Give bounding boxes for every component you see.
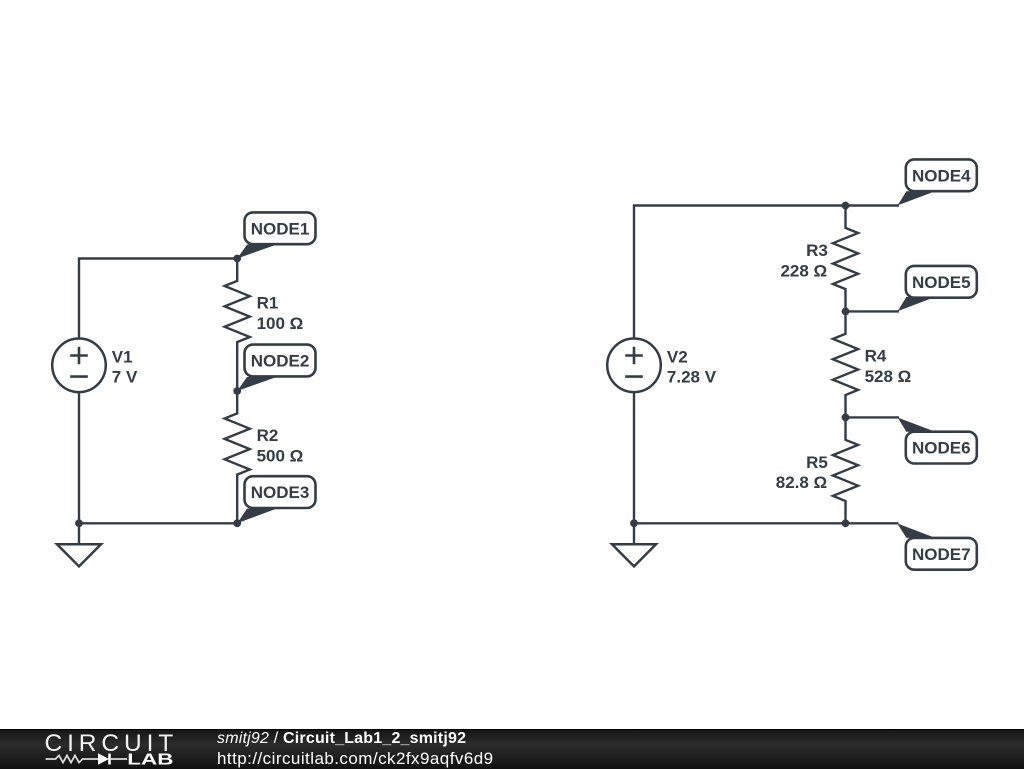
svg-text:7 V: 7 V (112, 368, 138, 387)
ground (left circuit) (78, 523, 80, 544)
svg-text:528 Ω: 528 Ω (865, 367, 912, 386)
node NODE2 flag (237, 377, 276, 391)
svg-text:LAB: LAB (127, 752, 173, 768)
svg-text:228 Ω: 228 Ω (780, 262, 827, 281)
svg-text:82.8 Ω: 82.8 Ω (776, 473, 827, 492)
node NODE5 junction dot (842, 308, 850, 316)
wire: R1 to R2 (236, 365, 238, 392)
node NODE5 flag (898, 297, 936, 311)
footer line 2 (217, 749, 494, 769)
wire: right circuit top rail (634, 206, 846, 339)
footer line 1 (217, 730, 466, 748)
resistor R1 (225, 259, 250, 365)
node NODE7 junction dot (842, 519, 850, 527)
logo diode (98, 753, 109, 764)
node NODE6 junction dot (842, 414, 850, 422)
footer bar (0, 729, 1024, 769)
node NODE4 flag (898, 191, 936, 205)
wire: left circuit top rail (79, 259, 237, 339)
resistor R5 (833, 417, 858, 523)
svg-text:NODE1: NODE1 (251, 219, 310, 238)
wire: right circuit bottom rail (634, 392, 846, 523)
svg-text:NODE4: NODE4 (912, 166, 971, 185)
node NODE1 junction dot (233, 255, 241, 263)
resistor R2 (225, 391, 250, 497)
node NODE7 flag (897, 523, 935, 538)
wire: NODE7 stub (846, 522, 899, 524)
svg-text:7.28 V: 7.28 V (667, 368, 717, 387)
node NODE1 flag (237, 245, 276, 259)
node NODE2 junction dot (233, 387, 241, 395)
svg-text:NODE6: NODE6 (912, 439, 971, 458)
svg-text:V1: V1 (112, 347, 133, 366)
node B junction dot (V2- / gnd) (630, 519, 638, 527)
logo resistor-diode squiggle (46, 755, 98, 762)
svg-text:R2: R2 (257, 426, 279, 445)
wire: NODE5 stub (846, 310, 900, 312)
svg-text:NODE2: NODE2 (251, 352, 310, 371)
svg-text:NODE5: NODE5 (912, 273, 971, 292)
wire: R2 to bottom rail (236, 497, 238, 523)
svg-text:R5: R5 (806, 453, 828, 472)
voltage source V2 (607, 339, 661, 393)
resistor R3 (833, 206, 858, 312)
voltage source V1 (52, 339, 106, 393)
wire: NODE4 stub (846, 204, 900, 206)
node NODE6 flag (898, 418, 936, 432)
svg-text:R4: R4 (865, 347, 887, 366)
svg-text:R3: R3 (806, 241, 828, 260)
node NODE4 junction dot (842, 202, 850, 210)
wire: NODE6 stub (846, 416, 900, 418)
resistor R4 (833, 311, 858, 417)
svg-text:R1: R1 (257, 294, 279, 313)
svg-text:100 Ω: 100 Ω (257, 314, 304, 333)
svg-text:NODE7: NODE7 (912, 545, 971, 564)
wire: left circuit bottom rail (79, 392, 237, 523)
svg-text:NODE3: NODE3 (251, 483, 310, 502)
node A junction dot (V1- / gnd) (75, 519, 83, 527)
node NODE3 flag (237, 509, 276, 524)
ground (right circuit) (633, 523, 635, 544)
svg-text:V2: V2 (667, 347, 688, 366)
svg-text:500 Ω: 500 Ω (257, 447, 304, 466)
node NODE3 junction dot (233, 519, 241, 527)
